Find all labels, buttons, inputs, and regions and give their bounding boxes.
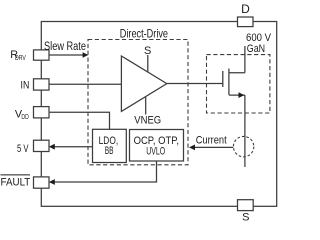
arrowhead into 5V pin — [49, 144, 55, 150]
Direct-Drive dashed block — [88, 40, 188, 165]
pin VDD — [34, 107, 50, 118]
arrowhead into FAULT pin — [49, 179, 55, 185]
svg-text:BB: BB — [105, 145, 114, 157]
svg-text:5 V: 5 V — [17, 143, 29, 155]
svg-text:DD: DD — [21, 114, 28, 121]
svg-text:UVLO: UVLO — [146, 145, 165, 157]
svg-text:VNEG: VNEG — [134, 115, 161, 127]
wire drain riser to D pin — [244, 46, 246, 73]
OCP OTP UVLO block — [130, 130, 184, 162]
current sense dashed circle — [233, 136, 253, 156]
node VNEG line from driver — [145, 97, 147, 115]
pin 5V — [34, 140, 50, 151]
wire R_DRV to slew-rate arrow — [49, 54, 83, 56]
LDO BB block — [93, 129, 127, 162]
svg-text:GaN: GaN — [247, 43, 265, 55]
svg-text:Direct-Drive: Direct-Drive — [120, 26, 168, 40]
wire LDO to 5V pin — [54, 146, 93, 148]
svg-text:Current: Current — [196, 134, 227, 146]
transistor source arrow — [239, 92, 245, 98]
svg-text:DRV: DRV — [15, 53, 26, 62]
svg-text:IN: IN — [21, 80, 30, 92]
driver op-amp triangle U1 — [121, 56, 166, 111]
svg-text:S: S — [144, 45, 151, 57]
pin IN — [34, 79, 50, 90]
pin FAULT — [34, 177, 50, 188]
wire source drop to S pin — [244, 95, 246, 167]
overline for FAULT — [1, 174, 31, 176]
pin S — [238, 200, 254, 211]
wire driver output to gate — [167, 83, 223, 85]
svg-text:Slew Rate: Slew Rate — [44, 41, 86, 53]
wire VDD to LDO — [50, 112, 110, 129]
pin D — [238, 17, 254, 27]
GaN transistor Q1 — [223, 69, 245, 96]
wire OCP to FAULT pin — [54, 161, 157, 182]
wire current sense to OCP — [195, 146, 233, 148]
IC outline — [41, 22, 276, 207]
svg-text:D: D — [241, 2, 250, 16]
arrowhead current into OCP — [189, 145, 195, 151]
600V GaN dashed block — [207, 55, 270, 113]
svg-text:S: S — [242, 212, 249, 224]
svg-text:FAULT: FAULT — [1, 176, 31, 188]
pin R_DRV — [34, 50, 50, 60]
node S line into driver — [147, 55, 149, 72]
arrowhead into Direct-Drive (slew rate) — [83, 52, 89, 58]
wire IN to driver input — [49, 83, 121, 85]
